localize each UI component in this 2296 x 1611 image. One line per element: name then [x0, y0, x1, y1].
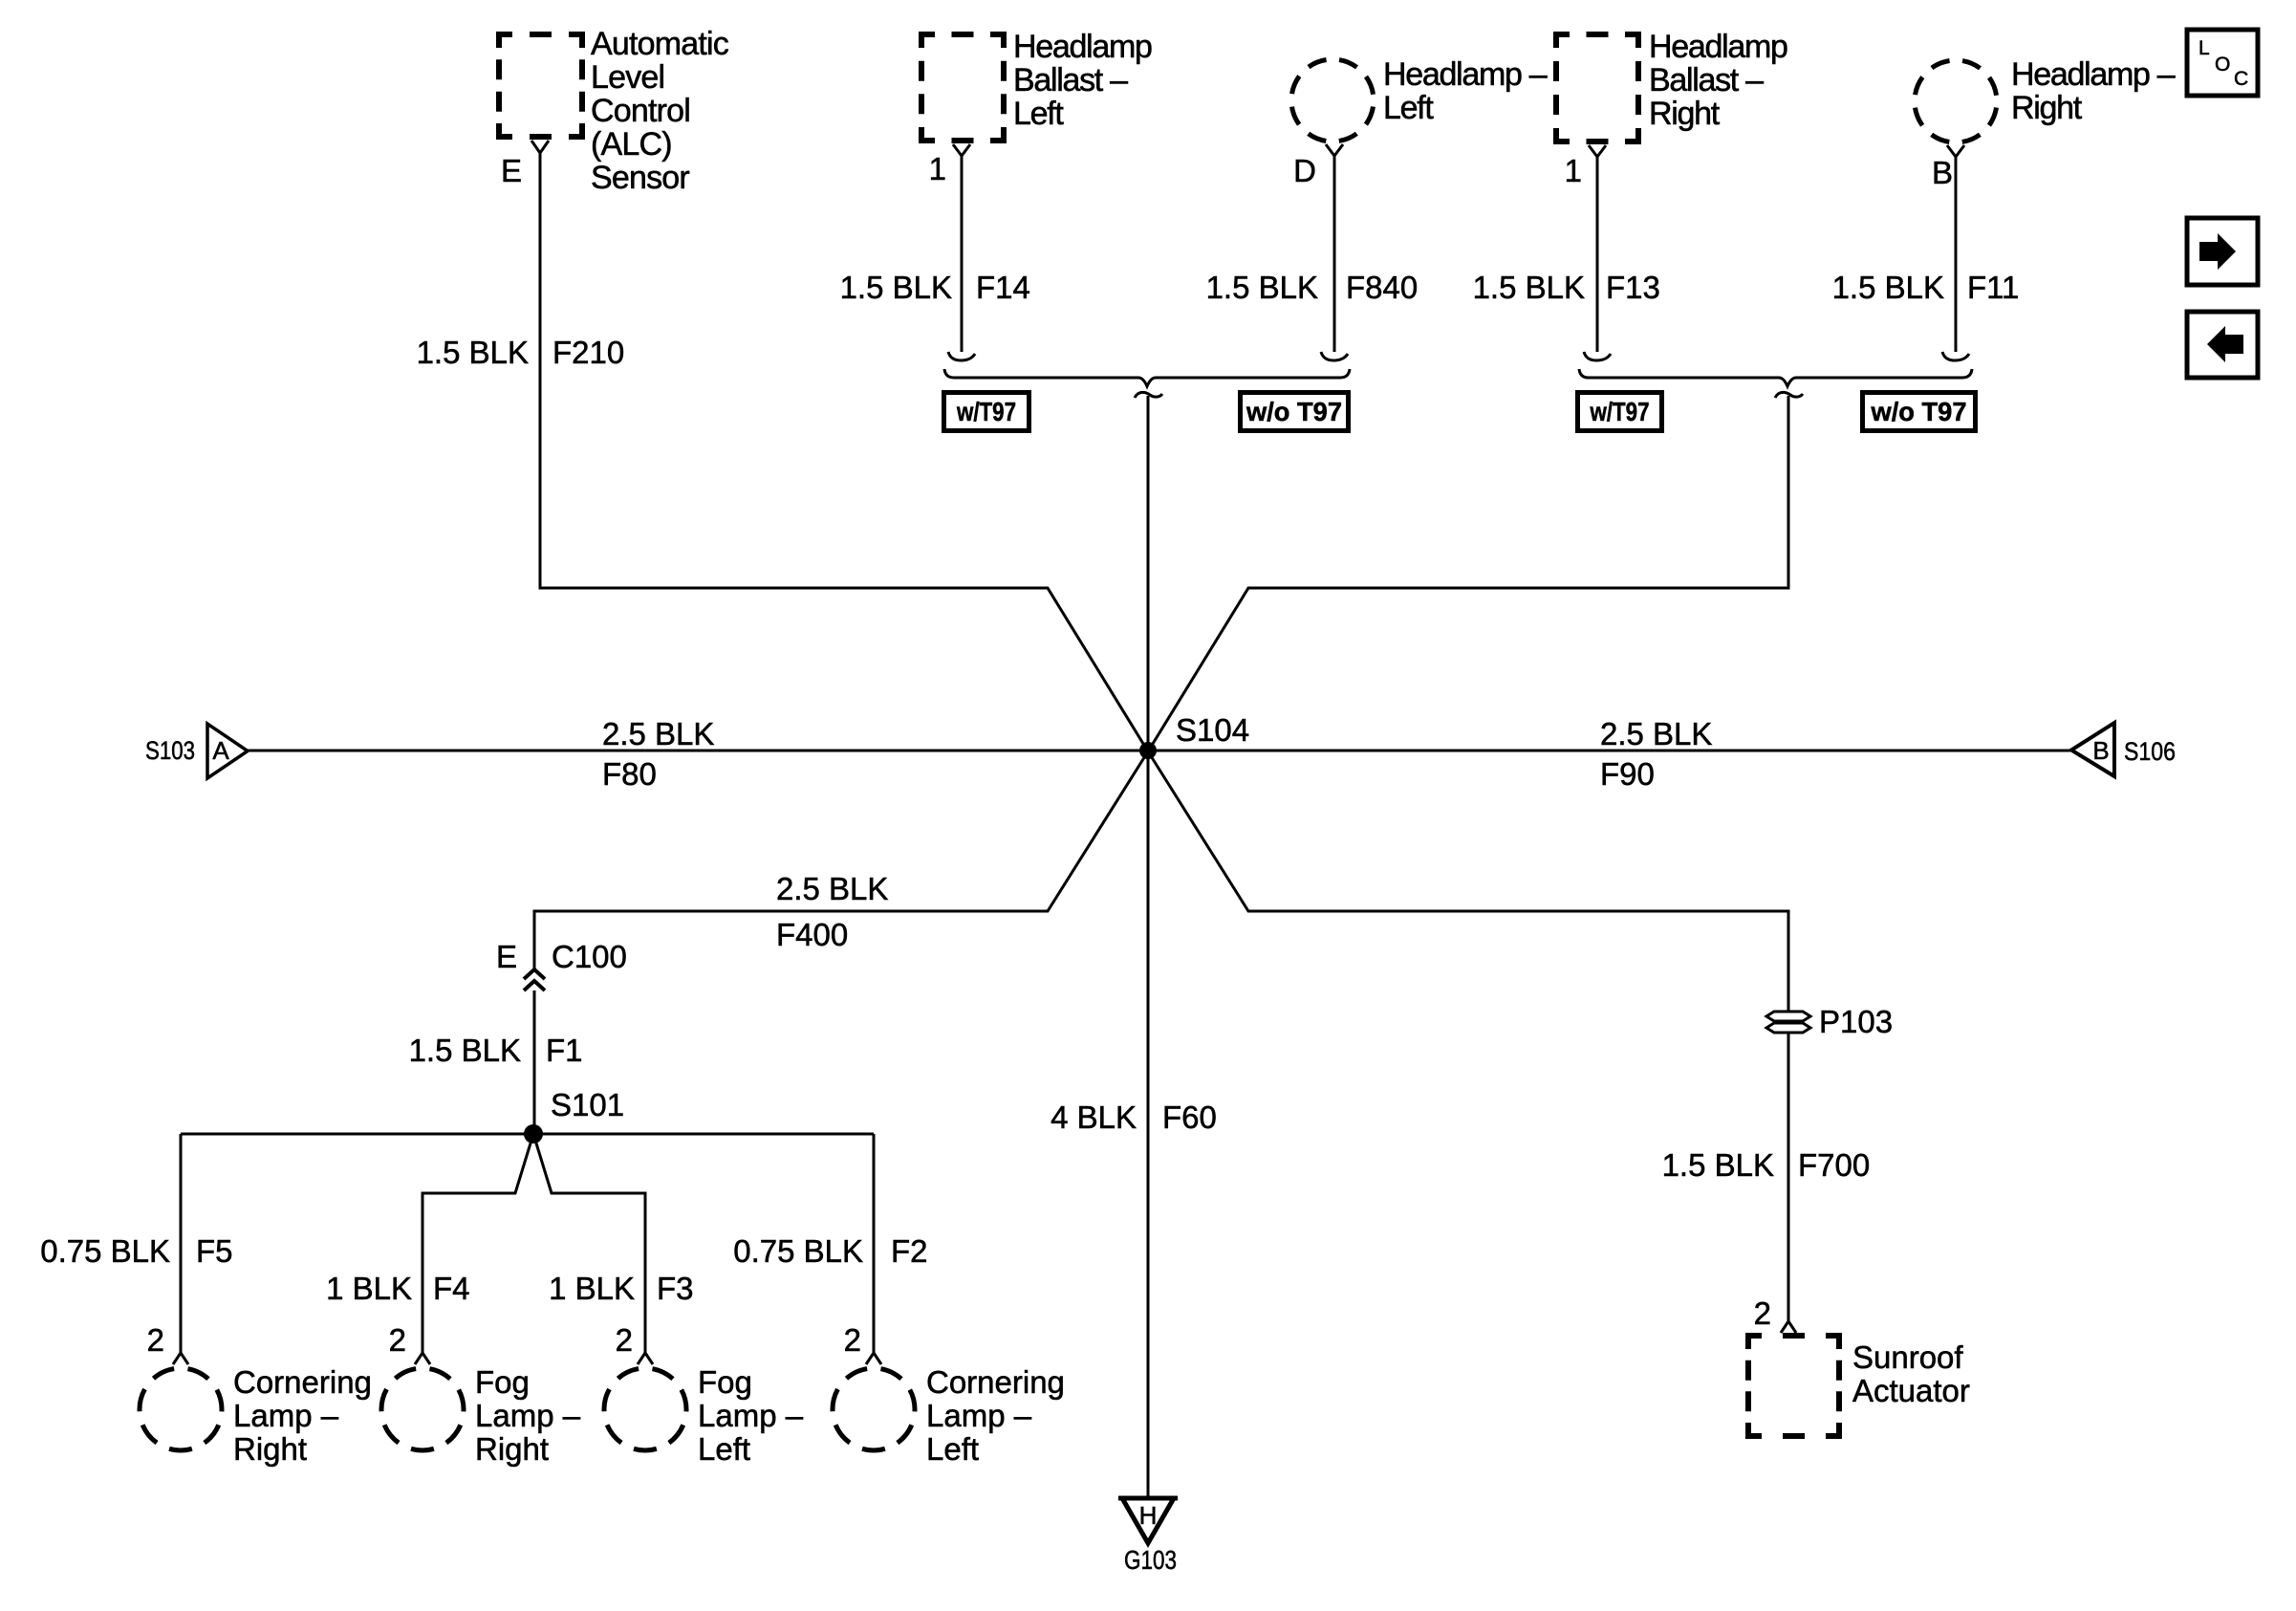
right-arrow legend box: [2187, 218, 2258, 285]
wire F5 drop: [180, 1134, 183, 1353]
svg-text:(ALC): (ALC): [591, 126, 672, 163]
svg-text:Headlamp: Headlamp: [1013, 29, 1152, 65]
svg-text:1: 1: [1565, 153, 1582, 188]
LOC legend box (top-right): [2187, 30, 2258, 96]
component Headlamp Ballast - Left dashed box: [921, 34, 1004, 141]
svg-text:2: 2: [844, 1322, 861, 1358]
wire F13: [1596, 157, 1599, 352]
svg-text:F2: F2: [891, 1233, 928, 1269]
svg-text:0.75 BLK: 0.75 BLK: [733, 1233, 863, 1269]
svg-text:O: O: [2215, 54, 2230, 76]
svg-text:F90: F90: [1600, 756, 1655, 792]
component Sunroof Actuator dashed box: [1748, 1336, 1839, 1436]
svg-text:w/T97: w/T97: [956, 397, 1016, 426]
svg-text:F60: F60: [1162, 1099, 1217, 1135]
svg-text:F14: F14: [976, 270, 1030, 305]
svg-text:Right: Right: [233, 1431, 307, 1467]
tag box w/o T97 (right pair): [1863, 393, 1976, 431]
svg-text:H: H: [1139, 1501, 1158, 1530]
svg-text:Fog: Fog: [698, 1364, 752, 1400]
svg-text:2.5 BLK: 2.5 BLK: [1600, 716, 1712, 751]
connector pin 1 of Headlamp Ballast Left: [953, 144, 970, 156]
svg-text:2: 2: [1754, 1295, 1771, 1331]
ground G103 triangle with H: [1118, 1498, 1178, 1543]
connector pin 1 of Headlamp Ballast Right: [1589, 145, 1606, 157]
svg-text:F80: F80: [602, 756, 657, 792]
connector pin E of ALC sensor: [531, 141, 549, 153]
svg-text:A: A: [212, 736, 229, 765]
svg-text:F210: F210: [552, 335, 624, 370]
brace joining F13/F11 wires: [1579, 369, 1972, 386]
wire F840: [1333, 156, 1336, 352]
svg-text:w/o T97: w/o T97: [1871, 397, 1967, 426]
svg-text:Fog: Fog: [475, 1364, 530, 1400]
svg-text:0.75 BLK: 0.75 BLK: [40, 1233, 170, 1269]
svg-text:2: 2: [147, 1322, 164, 1358]
svg-text:L: L: [2199, 37, 2210, 59]
component Headlamp - Left dashed circle: [1291, 59, 1374, 142]
svg-text:C100: C100: [552, 939, 627, 974]
pass-through grommet P103: [1766, 1012, 1810, 1021]
svg-text:Sunroof: Sunroof: [1852, 1339, 1963, 1375]
svg-text:F1: F1: [546, 1033, 583, 1068]
svg-text:D: D: [1293, 153, 1316, 188]
svg-text:Lamp –: Lamp –: [698, 1398, 804, 1433]
svg-text:G103: G103: [1124, 1545, 1177, 1575]
wire bus from S101: [181, 1133, 874, 1136]
svg-text:2: 2: [389, 1322, 406, 1358]
svg-text:w/T97: w/T97: [1590, 397, 1650, 426]
wire F2 drop: [873, 1134, 876, 1353]
svg-text:Left: Left: [1013, 96, 1064, 132]
svg-text:1 BLK: 1 BLK: [326, 1271, 412, 1306]
svg-text:F840: F840: [1346, 270, 1418, 305]
wire F400: S104 diagonal down-left then left to C100 drop: [534, 751, 1148, 969]
svg-text:1.5 BLK: 1.5 BLK: [1662, 1147, 1774, 1183]
svg-text:E: E: [501, 153, 522, 188]
svg-text:Cornering: Cornering: [926, 1364, 1065, 1400]
svg-text:Lamp –: Lamp –: [233, 1398, 339, 1433]
svg-text:Right: Right: [2011, 90, 2083, 126]
wire split to F3: [533, 1134, 645, 1353]
left-arrow legend box: [2187, 312, 2258, 378]
svg-text:F400: F400: [776, 917, 848, 952]
wire F700: P103 to sunroof actuator: [1787, 1033, 1790, 1321]
tag box w/T97 (right): [1578, 393, 1662, 431]
connector pin D of Headlamp Left: [1326, 144, 1343, 156]
svg-text:1: 1: [929, 151, 946, 186]
svg-text:1.5 BLK: 1.5 BLK: [840, 270, 952, 305]
tag box w/T97 (left): [944, 393, 1029, 431]
svg-text:P103: P103: [1819, 1004, 1893, 1039]
svg-text:S106: S106: [2124, 737, 2176, 766]
svg-text:Right: Right: [1649, 96, 1721, 132]
main horizontal wire F80/F90 through S104: [248, 750, 2070, 752]
svg-text:1 BLK: 1 BLK: [549, 1271, 635, 1306]
wire F1: C100 to S101: [533, 991, 536, 1134]
svg-text:F3: F3: [657, 1271, 694, 1306]
svg-text:Control: Control: [591, 93, 690, 129]
svg-text:F11: F11: [1967, 270, 2019, 305]
wire F210: from ALC sensor down, right, diagonal to S104: [540, 153, 1148, 751]
svg-text:Headlamp –: Headlamp –: [2011, 56, 2176, 93]
svg-text:Actuator: Actuator: [1852, 1373, 1970, 1408]
wire: vertical from left brace cusp through S104 down to G103: [1135, 392, 1162, 398]
svg-text:Headlamp –: Headlamp –: [1383, 56, 1548, 93]
svg-text:S101: S101: [551, 1087, 624, 1122]
svg-text:2.5 BLK: 2.5 BLK: [602, 716, 714, 751]
svg-text:E: E: [496, 939, 517, 974]
wire F11: [1955, 157, 1958, 352]
svg-text:S103: S103: [145, 736, 195, 765]
svg-text:Level: Level: [591, 59, 664, 96]
svg-text:Ballast –: Ballast –: [1013, 62, 1128, 98]
svg-text:F13: F13: [1606, 270, 1660, 305]
svg-text:1.5 BLK: 1.5 BLK: [1473, 270, 1585, 305]
svg-text:B: B: [1932, 155, 1953, 190]
svg-text:Cornering: Cornering: [233, 1364, 372, 1400]
svg-text:Lamp –: Lamp –: [926, 1398, 1032, 1433]
svg-text:w/o T97: w/o T97: [1245, 397, 1342, 426]
svg-text:B: B: [2092, 736, 2109, 765]
svg-text:S104: S104: [1176, 712, 1249, 748]
svg-text:Automatic: Automatic: [591, 26, 729, 62]
svg-text:1.5 BLK: 1.5 BLK: [1832, 270, 1944, 305]
svg-text:Sensor: Sensor: [591, 160, 689, 196]
component Headlamp Ballast - Right dashed box: [1556, 34, 1638, 142]
svg-text:1.5 BLK: 1.5 BLK: [409, 1033, 521, 1068]
wire split to F4: [422, 1134, 533, 1353]
svg-text:Lamp –: Lamp –: [475, 1398, 581, 1433]
wire: S104 diagonal down-right then right to sunroof drop: [1148, 751, 1788, 1012]
svg-text:C: C: [2234, 68, 2248, 90]
tag box w/o T97 (left pair): [1241, 393, 1349, 431]
component Headlamp - Right dashed circle: [1915, 60, 1997, 142]
svg-text:F5: F5: [196, 1233, 233, 1269]
component ALC Sensor (Automatic Level Control) dashed box: [499, 34, 582, 137]
svg-text:Left: Left: [1383, 90, 1434, 126]
svg-text:1.5 BLK: 1.5 BLK: [417, 335, 529, 370]
splice S103 triangle (off-page, A): [207, 724, 248, 778]
svg-text:Ballast –: Ballast –: [1649, 62, 1764, 98]
svg-text:Headlamp: Headlamp: [1649, 29, 1787, 65]
svg-text:Left: Left: [926, 1431, 979, 1467]
wire: right brace cusp down, left, diagonal to S104: [1775, 392, 1803, 398]
splice node S104: [1139, 742, 1157, 759]
svg-text:Right: Right: [475, 1431, 549, 1467]
svg-text:4 BLK: 4 BLK: [1051, 1099, 1137, 1135]
wire F14: [961, 156, 964, 352]
svg-text:F700: F700: [1798, 1147, 1870, 1183]
svg-text:1.5 BLK: 1.5 BLK: [1206, 270, 1318, 305]
svg-text:F4: F4: [433, 1271, 470, 1306]
splice S106 triangle (off-page, B): [2071, 723, 2114, 776]
svg-text:2.5 BLK: 2.5 BLK: [776, 871, 888, 906]
svg-text:2: 2: [616, 1322, 633, 1358]
brace joining F14/F840 wires (w/T97 vs w/o T97 split): [944, 369, 1350, 386]
svg-text:Left: Left: [698, 1431, 750, 1467]
connector pin B of Headlamp Right: [1947, 145, 1964, 157]
